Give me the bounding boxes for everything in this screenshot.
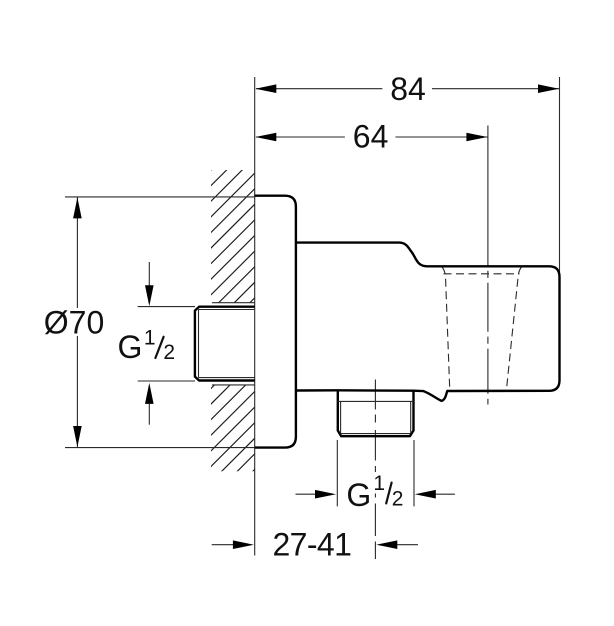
svg-text:64: 64 [353, 118, 389, 154]
svg-text:2: 2 [163, 341, 175, 364]
svg-text:2: 2 [392, 488, 404, 511]
svg-text:1: 1 [144, 326, 156, 349]
svg-text:Ø70: Ø70 [44, 304, 104, 340]
svg-text:G: G [346, 477, 371, 513]
svg-text:27-41: 27-41 [272, 527, 351, 563]
svg-text:1: 1 [373, 472, 385, 495]
svg-text:84: 84 [390, 71, 426, 107]
svg-text:G: G [118, 329, 143, 365]
